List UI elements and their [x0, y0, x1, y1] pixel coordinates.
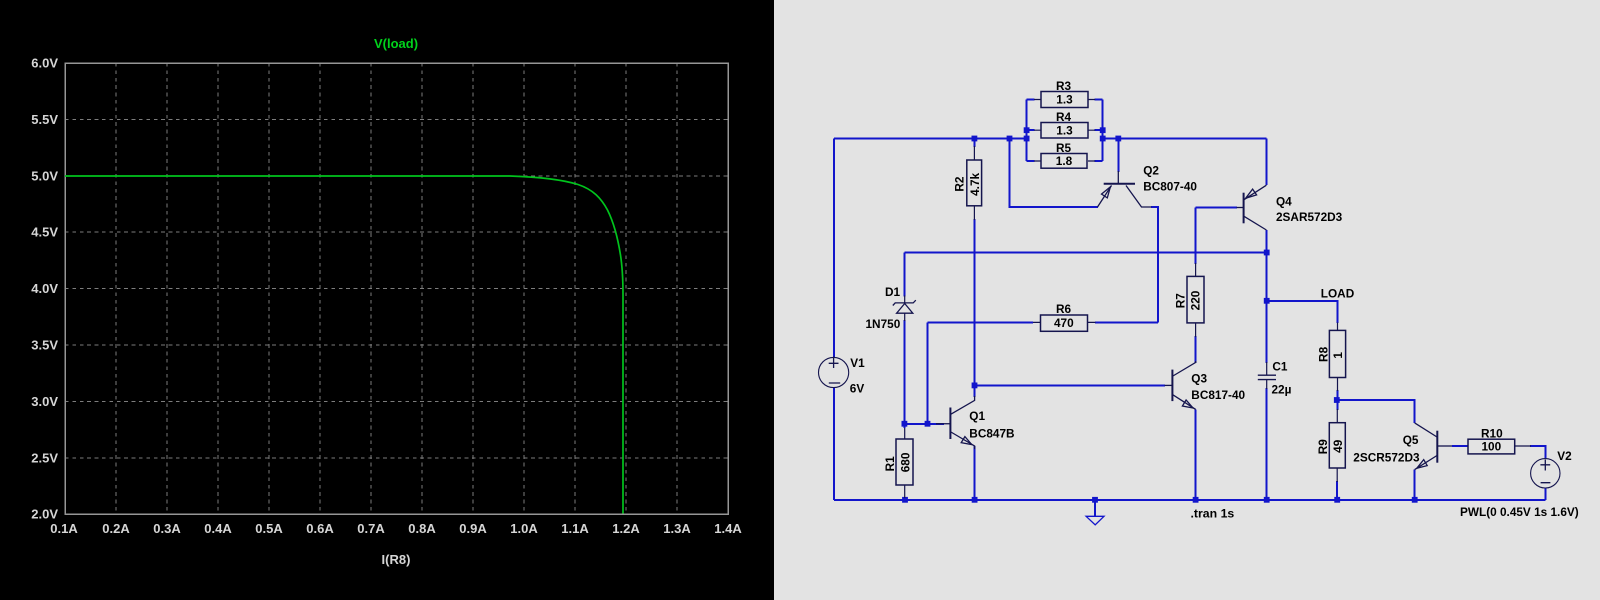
svg-text:49: 49	[1331, 439, 1345, 453]
svg-text:5.0V: 5.0V	[31, 168, 58, 183]
svg-text:1.3: 1.3	[1056, 93, 1073, 107]
svg-text:3.0V: 3.0V	[31, 394, 58, 409]
svg-text:Q5: Q5	[1403, 433, 1419, 447]
svg-text:6.0V: 6.0V	[31, 56, 58, 71]
svg-text:1.3A: 1.3A	[663, 521, 691, 536]
svg-text:1.0A: 1.0A	[510, 521, 538, 536]
svg-text:R7: R7	[1174, 293, 1188, 309]
svg-text:5.5V: 5.5V	[31, 112, 58, 127]
svg-text:V2: V2	[1557, 449, 1572, 463]
svg-text:470: 470	[1054, 316, 1074, 330]
svg-text:LOAD: LOAD	[1321, 286, 1355, 300]
svg-text:2SAR572D3: 2SAR572D3	[1276, 210, 1343, 224]
svg-text:1N750: 1N750	[866, 317, 901, 331]
svg-text:680: 680	[899, 452, 913, 472]
svg-text:PWL(0 0.45V 1s 1.6V): PWL(0 0.45V 1s 1.6V)	[1460, 505, 1579, 519]
svg-text:1.3: 1.3	[1056, 124, 1073, 138]
svg-text:3.5V: 3.5V	[31, 338, 58, 353]
svg-text:D1: D1	[885, 285, 901, 299]
svg-text:R10: R10	[1481, 426, 1503, 440]
svg-text:100: 100	[1481, 440, 1501, 454]
svg-text:V(load): V(load)	[374, 36, 418, 51]
svg-text:1.4A: 1.4A	[714, 521, 742, 536]
svg-text:2.0V: 2.0V	[31, 507, 58, 522]
svg-text:4.7k: 4.7k	[968, 172, 982, 195]
svg-text:0.9A: 0.9A	[459, 521, 487, 536]
svg-text:Q4: Q4	[1276, 194, 1292, 208]
svg-text:R1: R1	[883, 456, 897, 472]
svg-text:2.5V: 2.5V	[31, 450, 58, 465]
svg-text:Q3: Q3	[1191, 372, 1207, 386]
svg-text:.tran 1s: .tran 1s	[1191, 506, 1235, 520]
svg-text:R9: R9	[1316, 439, 1330, 455]
svg-text:I(R8): I(R8)	[382, 552, 411, 567]
svg-text:R3: R3	[1056, 79, 1072, 93]
svg-text:R4: R4	[1056, 110, 1072, 124]
svg-text:BC847B: BC847B	[969, 426, 1014, 440]
svg-text:V1: V1	[850, 356, 865, 370]
svg-text:0.5A: 0.5A	[255, 521, 283, 536]
svg-text:0.6A: 0.6A	[306, 521, 334, 536]
svg-text:1.1A: 1.1A	[561, 521, 589, 536]
svg-text:0.7A: 0.7A	[357, 521, 385, 536]
svg-text:6V: 6V	[850, 382, 865, 396]
svg-text:1.8: 1.8	[1056, 154, 1073, 168]
svg-text:4.5V: 4.5V	[31, 225, 58, 240]
svg-text:0.1A: 0.1A	[50, 521, 78, 536]
svg-text:4.0V: 4.0V	[31, 281, 58, 296]
svg-text:2SCR572D3: 2SCR572D3	[1353, 450, 1420, 464]
svg-text:Q1: Q1	[969, 409, 985, 423]
svg-text:220: 220	[1189, 290, 1203, 310]
svg-text:22µ: 22µ	[1272, 382, 1292, 396]
svg-text:0.3A: 0.3A	[153, 521, 181, 536]
svg-text:R2: R2	[952, 176, 966, 192]
svg-text:0.8A: 0.8A	[408, 521, 436, 536]
svg-text:R6: R6	[1056, 302, 1072, 316]
svg-text:C1: C1	[1272, 360, 1288, 374]
svg-text:BC807-40: BC807-40	[1143, 180, 1197, 194]
svg-text:Q2: Q2	[1143, 164, 1159, 178]
svg-text:R8: R8	[1316, 346, 1330, 362]
svg-text:1.2A: 1.2A	[612, 521, 640, 536]
svg-text:R5: R5	[1056, 141, 1072, 155]
svg-text:0.2A: 0.2A	[102, 521, 130, 536]
svg-text:BC817-40: BC817-40	[1191, 388, 1245, 402]
svg-text:0.4A: 0.4A	[204, 521, 232, 536]
svg-text:1: 1	[1331, 352, 1345, 359]
